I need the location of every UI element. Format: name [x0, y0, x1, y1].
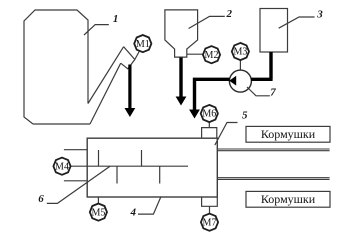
- svg-text:Кормушки: Кормушки: [261, 192, 316, 206]
- pump 7: [229, 70, 251, 92]
- leader line label 6: [47, 166, 110, 203]
- leader line label 3: [279, 17, 315, 28]
- arrow from conveyor head down: [128, 65, 131, 109]
- feeder conveyor lower line a: [217, 177, 329, 179]
- svg-text:М5: М5: [91, 207, 105, 218]
- wire: conveyor head to motor M1: [135, 52, 139, 60]
- svg-text:Кормушки: Кормушки: [261, 127, 316, 141]
- motor M4: [53, 158, 70, 175]
- mixer paddle up 2: [141, 150, 143, 166]
- svg-text:М7: М7: [203, 217, 217, 228]
- leader line label 7: [247, 87, 270, 96]
- motor M6: [201, 105, 218, 122]
- motor M3: [232, 43, 249, 60]
- wire: motor M3 to pump 7: [239, 60, 241, 70]
- feeder conveyor upper line a: [217, 148, 329, 150]
- mixer shaft (node to M4): [71, 165, 188, 167]
- svg-text:4: 4: [129, 206, 136, 218]
- svg-text:М4: М4: [55, 161, 69, 172]
- motor M5: [90, 204, 107, 221]
- pipe: pump to mixer elbow with arrow: [195, 78, 230, 110]
- feeder conveyor lower line b: [217, 178, 329, 180]
- svg-text:М3: М3: [233, 47, 247, 58]
- svg-text:6: 6: [38, 193, 44, 205]
- wire: bin 2 neck to motor M2: [187, 53, 203, 55]
- mixer paddle up 1: [98, 150, 100, 166]
- leader line label 2: [189, 16, 225, 28]
- feeder conveyor upper line b: [217, 150, 329, 152]
- svg-text:3: 3: [316, 8, 323, 20]
- feeders box bottom: [246, 191, 330, 207]
- mixer paddle down 2: [159, 166, 161, 183]
- svg-text:1: 1: [113, 13, 119, 25]
- inlet box 5 on mixer top: [202, 128, 217, 139]
- inclined screw conveyor from bin 1: [88, 47, 135, 124]
- svg-text:7: 7: [270, 87, 276, 99]
- leader line label 1: [84, 25, 109, 35]
- mixer body 4: [87, 138, 217, 197]
- wire: outlet box to motor M7: [209, 206, 211, 213]
- mixer shaft upper stub: [64, 149, 87, 151]
- motor M7: [201, 214, 218, 231]
- svg-text:5: 5: [242, 110, 248, 122]
- leader line label 5: [215, 123, 238, 146]
- mixer shaft lower stub: [64, 180, 87, 182]
- hopper bin 1: [24, 10, 90, 124]
- pipe: tank 3 down and left to pump: [251, 52, 273, 79]
- motor M2: [203, 46, 220, 63]
- svg-text:М6: М6: [202, 109, 216, 120]
- arrow from bin 2 down: [179, 58, 182, 98]
- leader line label 4: [138, 197, 161, 215]
- feeders box top: [246, 126, 330, 142]
- mixer paddle down 1: [116, 166, 118, 183]
- wire: mixer to motor M5: [97, 197, 99, 204]
- svg-text:2: 2: [226, 8, 233, 20]
- svg-text:М2: М2: [205, 50, 219, 61]
- wire: motor M6 to inlet box 5: [208, 122, 210, 128]
- svg-text:М1: М1: [136, 39, 150, 50]
- hopper bin 2: [165, 10, 198, 57]
- motor M1: [134, 35, 151, 52]
- liquid tank 3: [260, 9, 288, 53]
- outlet box below mixer: [202, 197, 218, 206]
